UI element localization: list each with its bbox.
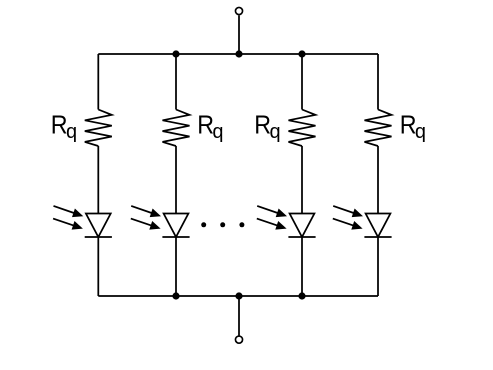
photodiode D3 cathode bar (288, 236, 315, 238)
photodiode D2 triangle (164, 214, 189, 238)
resistor R4 Rq (zigzag) (365, 110, 392, 147)
wire bottom terminal stem (238, 296, 240, 336)
photodiode D3 triangle (290, 214, 315, 238)
photodiode D4 cathode bar (364, 236, 391, 238)
photodiode D2 cathode bar (162, 236, 189, 238)
photodiode D4 light arrow 2 (333, 219, 355, 226)
resistor R2 Rq (zigzag) (163, 110, 190, 147)
terminal T2 (bottom, open circle) (235, 336, 242, 343)
svg-text:q: q (66, 121, 77, 143)
wire branch 4 lower segment (377, 237, 379, 296)
svg-text:q: q (415, 121, 426, 143)
wire branch 2 upper segment (175, 54, 177, 110)
wire branch 2 lower segment (175, 237, 177, 296)
wire top terminal stem (238, 15, 240, 54)
wire top bus (98, 53, 378, 55)
svg-text:q: q (212, 121, 223, 143)
wire branch 3 middle segment (301, 146, 303, 214)
photodiode D2 light arrow 2 (131, 219, 153, 226)
photodiode D3 light arrow 1 (257, 206, 279, 214)
wire branch 1 upper segment (97, 54, 99, 110)
photodiode D1 cathode bar (85, 236, 112, 238)
terminal T1 (top, open circle) (235, 7, 242, 14)
photodiode D4 triangle (366, 214, 391, 238)
wire branch 3 lower segment (301, 237, 303, 296)
wire branch 1 lower segment (97, 237, 99, 296)
ellipsis dot 1 (more branches) (201, 222, 206, 227)
wire branch 2 middle segment (175, 146, 177, 214)
node junction dot 1 (172, 50, 179, 57)
resistor R1 Rq (zigzag) (85, 110, 112, 147)
wire branch 3 upper segment (301, 54, 303, 110)
photodiode D3 light arrow 2 (257, 219, 279, 226)
ellipsis dot 3 (more branches) (239, 222, 244, 227)
ellipsis dot 2 (more branches) (220, 222, 225, 227)
node junction dot 4 (172, 292, 179, 299)
resistor R3 Rq (zigzag) (289, 110, 316, 147)
photodiode D1 light arrow 1 (54, 206, 76, 214)
wire branch 1 middle segment (97, 146, 99, 214)
wire branch 4 upper segment (377, 54, 379, 110)
wire branch 4 middle segment (377, 146, 379, 214)
node junction dot 6 (298, 292, 305, 299)
photodiode D1 triangle (86, 214, 111, 238)
photodiode D4 light arrow 1 (333, 206, 355, 214)
node junction dot 3 (298, 50, 305, 57)
wire bottom bus (98, 295, 378, 297)
node junction dot 2 (235, 50, 242, 57)
svg-text:q: q (270, 121, 281, 143)
photodiode D2 light arrow 1 (131, 206, 153, 214)
photodiode D1 light arrow 2 (53, 219, 75, 226)
node junction dot 5 (235, 292, 242, 299)
